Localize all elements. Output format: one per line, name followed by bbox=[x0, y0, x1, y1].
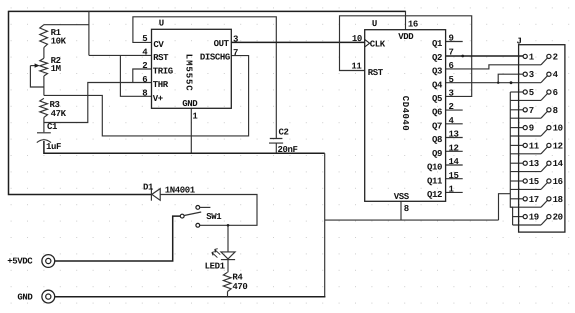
svg-text:Q10: Q10 bbox=[427, 163, 442, 173]
svg-text:470: 470 bbox=[232, 282, 247, 292]
svg-text:SW1: SW1 bbox=[206, 212, 222, 222]
svg-text:14: 14 bbox=[449, 157, 460, 167]
wire +V rail top bbox=[9, 10, 406, 12]
wire J pin18 diagonal bbox=[541, 200, 547, 207]
capacitor C1 top plate bbox=[37, 132, 51, 134]
wire J pin9 stub bbox=[510, 127, 523, 129]
svg-text:C2: C2 bbox=[279, 128, 289, 138]
svg-text:12: 12 bbox=[449, 143, 459, 153]
connector J pin14 circle bbox=[547, 161, 551, 165]
svg-text:Q1: Q1 bbox=[432, 39, 443, 49]
svg-text:Q4: Q4 bbox=[432, 80, 443, 90]
svg-text:RST: RST bbox=[153, 53, 169, 63]
wire ground net rail mid bbox=[44, 141, 325, 153]
svg-text:J: J bbox=[517, 36, 522, 46]
switch SW1 throw A stub bbox=[200, 206, 211, 208]
wire R3 bottom bbox=[43, 117, 45, 132]
svg-text:Q11: Q11 bbox=[427, 176, 443, 186]
wire J pin4 diagonal bbox=[541, 76, 547, 83]
wire Q12 stub bbox=[446, 191, 463, 193]
wire J pin8 link bbox=[510, 117, 541, 119]
wire J pin5 stub bbox=[510, 91, 523, 93]
connector J pin8 circle bbox=[547, 108, 551, 112]
wire CV to C2 over top bbox=[133, 17, 276, 138]
svg-text:8: 8 bbox=[553, 106, 558, 116]
svg-text:VSS: VSS bbox=[394, 192, 410, 202]
wire Q8 stub bbox=[446, 137, 463, 139]
svg-text:2: 2 bbox=[449, 102, 454, 112]
connector J pin16 circle bbox=[547, 179, 551, 183]
switch SW1 blade bbox=[184, 212, 201, 216]
wire J pin6 diagonal bbox=[541, 94, 547, 101]
svg-text:OUT: OUT bbox=[214, 39, 230, 49]
connector J pin13 circle bbox=[523, 161, 527, 165]
wire VSS to J bus bbox=[499, 194, 511, 220]
resistor R2 (pot) bbox=[40, 58, 48, 76]
svg-text:9: 9 bbox=[529, 124, 534, 134]
svg-text:15: 15 bbox=[449, 171, 459, 181]
op box U2 CD4040 bbox=[365, 30, 446, 202]
svg-text:7: 7 bbox=[233, 48, 238, 58]
svg-text:6: 6 bbox=[553, 88, 558, 98]
connector J pin17 circle bbox=[523, 197, 527, 201]
svg-text:C1: C1 bbox=[47, 122, 58, 132]
svg-text:7: 7 bbox=[529, 106, 534, 116]
wire J pin16 link bbox=[510, 188, 541, 190]
wire VSS stub bbox=[400, 201, 402, 220]
connector J pin3 circle bbox=[523, 72, 527, 76]
svg-text:Q12: Q12 bbox=[427, 190, 442, 200]
resistor R1 bbox=[40, 25, 48, 48]
svg-text:13: 13 bbox=[449, 130, 459, 140]
wire J pin13 stub bbox=[510, 162, 523, 164]
wire Q9 stub bbox=[446, 150, 463, 152]
wire Q7 stub bbox=[446, 123, 463, 125]
svg-text:3: 3 bbox=[233, 35, 238, 45]
svg-text:Q9: Q9 bbox=[432, 149, 442, 159]
svg-text:7: 7 bbox=[449, 47, 454, 57]
wire VDD drop bbox=[405, 11, 407, 30]
svg-text:CV: CV bbox=[153, 40, 164, 50]
connector J pin2 circle bbox=[547, 54, 551, 58]
wire Q2 to J pin1 bbox=[446, 55, 523, 57]
diode D1 triangle bbox=[152, 189, 160, 201]
wire R1 top link bbox=[44, 24, 89, 26]
resistor R3 bbox=[40, 98, 48, 117]
wire J pin14 link bbox=[510, 171, 541, 173]
wire RST(555) to V+ rail bbox=[89, 54, 152, 56]
wire C2 bottom bbox=[275, 143, 277, 153]
svg-text:CLK: CLK bbox=[370, 40, 386, 50]
svg-text:14: 14 bbox=[553, 159, 564, 169]
svg-text:10: 10 bbox=[553, 124, 563, 134]
wire Q4 jog to J pin3 bbox=[498, 74, 523, 83]
op box U1 LM555C bbox=[152, 29, 232, 108]
wire J pin15 stub bbox=[510, 180, 523, 182]
svg-text:U: U bbox=[372, 19, 377, 29]
wire R2 wiper drop bbox=[30, 66, 44, 87]
connector J pin20 circle bbox=[547, 215, 551, 219]
svg-text:LM555C: LM555C bbox=[184, 54, 194, 92]
wire 555 GND drop bbox=[190, 108, 192, 153]
capacitor C1 bottom plate bbox=[37, 140, 51, 143]
wire J pin12 diagonal bbox=[541, 147, 547, 154]
svg-text:3: 3 bbox=[529, 70, 534, 80]
connector J pin10 circle bbox=[547, 126, 551, 130]
connector J box bbox=[519, 45, 565, 232]
LED1 triangle bbox=[221, 252, 235, 259]
svg-text:3: 3 bbox=[449, 88, 454, 98]
wire J pin14 diagonal bbox=[541, 165, 547, 172]
capacitor C2 plates bbox=[269, 139, 283, 144]
wire Q10 stub bbox=[446, 164, 463, 166]
connector J pin15 circle bbox=[523, 179, 527, 183]
wire OUT to CLK bbox=[231, 41, 364, 43]
svg-text:GND: GND bbox=[17, 292, 33, 302]
wire Q6 stub bbox=[446, 109, 463, 111]
svg-text:R4: R4 bbox=[232, 272, 243, 282]
wire J pin10 link bbox=[510, 135, 541, 137]
wire TRIG link bbox=[133, 69, 152, 83]
connector J pin7 circle bbox=[523, 108, 527, 112]
junction dot C bbox=[497, 82, 499, 84]
wire SW1 to LED1 bbox=[227, 225, 229, 252]
wire J pin11 stub bbox=[510, 144, 523, 146]
connector J pin1 circle bbox=[523, 54, 527, 58]
wire GND rail bottom bbox=[55, 296, 326, 298]
junction dot A bbox=[461, 55, 464, 58]
switch SW1 pole contact bbox=[180, 214, 184, 218]
svg-text:Q2: Q2 bbox=[432, 53, 442, 63]
svg-text:LED1: LED1 bbox=[205, 262, 226, 272]
wire Q3 to J pin2 bbox=[446, 65, 541, 69]
connector J pin4 circle bbox=[547, 72, 551, 76]
wire J pin8 diagonal bbox=[541, 111, 547, 118]
wire left riser to D1 bbox=[9, 11, 152, 195]
wire VSS rail bbox=[325, 219, 499, 221]
wire J pin18 link bbox=[510, 206, 541, 208]
LED1 cathode bar bbox=[221, 259, 235, 261]
svg-text:Q8: Q8 bbox=[432, 135, 442, 145]
svg-text:13: 13 bbox=[529, 159, 539, 169]
svg-text:12: 12 bbox=[553, 141, 563, 151]
svg-text:D1: D1 bbox=[143, 182, 154, 192]
svg-text:47K: 47K bbox=[51, 109, 67, 119]
connector J pin12 circle bbox=[547, 143, 551, 147]
svg-text:20nF: 20nF bbox=[278, 145, 298, 155]
wire ground riser bbox=[324, 153, 326, 297]
switch SW1 throw A contact bbox=[196, 206, 200, 210]
junction dot LED tap bbox=[227, 224, 230, 227]
svg-text:Q7: Q7 bbox=[432, 121, 442, 131]
svg-text:DISCHG: DISCHG bbox=[200, 53, 230, 63]
wire R1-R2 link bbox=[43, 48, 45, 59]
junction dot B bbox=[510, 81, 513, 84]
wire J pin10 diagonal bbox=[541, 129, 547, 136]
svg-text:8: 8 bbox=[142, 89, 147, 99]
svg-text:1uF: 1uF bbox=[46, 142, 61, 152]
svg-text:TRIG: TRIG bbox=[153, 67, 173, 77]
svg-text:V+: V+ bbox=[153, 94, 163, 104]
svg-text:Q5: Q5 bbox=[432, 94, 442, 104]
wire Q4 to J pin4 bbox=[446, 82, 541, 84]
wire CD4040 RST loop bbox=[340, 16, 472, 97]
wire J ground bus bbox=[510, 92, 512, 225]
wire +5V feed bbox=[55, 216, 180, 261]
wire THR to R3/C1 node bbox=[44, 83, 152, 123]
svg-text:RST: RST bbox=[368, 68, 384, 78]
wire J pin6 link bbox=[510, 99, 541, 101]
svg-text:9: 9 bbox=[449, 34, 454, 44]
svg-text:2: 2 bbox=[142, 61, 147, 71]
wire V+ branch vertical bbox=[88, 11, 90, 56]
wire V+ pin drop bbox=[120, 55, 151, 96]
svg-text:6: 6 bbox=[142, 75, 147, 85]
svg-text:10K: 10K bbox=[51, 37, 67, 47]
svg-text:1M: 1M bbox=[51, 64, 61, 74]
svg-text:5: 5 bbox=[142, 34, 147, 44]
connector J pin9 circle bbox=[523, 126, 527, 130]
svg-text:11: 11 bbox=[351, 62, 362, 72]
connector J pin6 circle bbox=[547, 90, 551, 94]
switch SW1 throw B contact bbox=[196, 223, 200, 227]
svg-text:15: 15 bbox=[529, 177, 539, 187]
svg-text:VDD: VDD bbox=[398, 32, 414, 42]
wire D1 to SW1 bbox=[160, 195, 257, 226]
svg-text:17: 17 bbox=[529, 195, 539, 205]
wire J pin7 stub bbox=[510, 109, 523, 111]
svg-text:2: 2 bbox=[553, 52, 558, 62]
svg-text:THR: THR bbox=[153, 80, 169, 90]
wire J pin17 stub bbox=[510, 198, 523, 200]
wire J pin16 diagonal bbox=[541, 183, 547, 190]
R2 wiper arrow bbox=[30, 65, 35, 67]
svg-text:18: 18 bbox=[553, 195, 563, 205]
svg-text:16: 16 bbox=[408, 20, 418, 30]
svg-text:19: 19 bbox=[529, 213, 539, 223]
wire J pin2 diagonal bbox=[541, 58, 547, 65]
wire DISCHG loop bbox=[44, 56, 249, 136]
wire Q11 stub bbox=[446, 178, 463, 180]
CD4040 clock wedge bbox=[365, 39, 370, 47]
svg-text:5: 5 bbox=[449, 75, 454, 85]
svg-text:5: 5 bbox=[529, 88, 534, 98]
svg-text:GND: GND bbox=[182, 99, 198, 109]
svg-text:+5VDC: +5VDC bbox=[7, 256, 33, 266]
wire LED1 to R4 bbox=[227, 260, 229, 273]
svg-text:16: 16 bbox=[553, 177, 563, 187]
svg-text:20: 20 bbox=[553, 213, 563, 223]
wire R4 bottom bbox=[227, 292, 229, 297]
svg-text:1N4001: 1N4001 bbox=[165, 186, 196, 196]
connector J pin11 circle bbox=[523, 143, 527, 147]
svg-text:Q6: Q6 bbox=[432, 108, 442, 118]
wire Q1 stub bbox=[446, 41, 463, 43]
connector J pin19 circle bbox=[523, 215, 527, 219]
connector J pin18 circle bbox=[547, 197, 551, 201]
svg-text:6: 6 bbox=[449, 61, 454, 71]
svg-text:8: 8 bbox=[404, 204, 409, 214]
diode D1 bar bbox=[150, 188, 152, 201]
wire R2 bottom bbox=[43, 76, 45, 95]
terminal GND bbox=[42, 290, 55, 303]
svg-text:U: U bbox=[159, 19, 164, 29]
wire J pin20 link bbox=[513, 224, 541, 226]
LED1 arrows bbox=[212, 249, 220, 258]
svg-text:11: 11 bbox=[529, 141, 540, 151]
connector J pin5 circle bbox=[523, 90, 527, 94]
svg-text:10: 10 bbox=[352, 34, 362, 44]
svg-text:CD4040: CD4040 bbox=[400, 96, 410, 131]
wire J pin12 link bbox=[510, 153, 541, 155]
terminal +5VDC bbox=[42, 255, 55, 268]
wire J pin19 stub bbox=[513, 216, 524, 218]
wire J pin20 diagonal bbox=[541, 218, 547, 225]
resistor R4 bbox=[223, 272, 231, 291]
svg-text:Q3: Q3 bbox=[432, 67, 442, 77]
